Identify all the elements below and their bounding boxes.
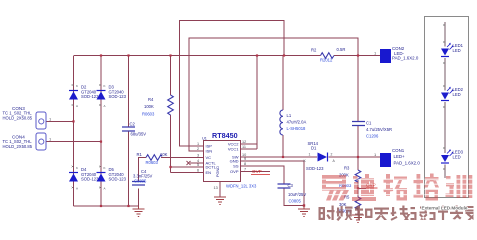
wire: bridge column 2 (x101): [100, 56, 102, 207]
white streaks through watermark: [318, 179, 477, 196]
LED LED1: [441, 43, 464, 57]
capacitor C2: [122, 122, 146, 137]
wire: IC exposed pad pin13 to ground: [219, 182, 221, 197]
diode D2: [69, 84, 99, 108]
capacitor C3: [278, 183, 307, 203]
svg-text:12: 12: [242, 140, 246, 144]
no-connect X on pin 4 ACTL: [187, 161, 191, 165]
wire: R1 left lead down to C4: [139, 158, 147, 182]
svg-text:OVP: OVP: [230, 169, 239, 174]
wire: SS pin8 to C3: [249, 166, 285, 184]
svg-text:A: A: [104, 187, 106, 191]
svg-text:SOD-123: SOD-123: [109, 94, 127, 99]
junction: bottom bus col2: [100, 205, 102, 207]
svg-text:PAD_1.6X2.0: PAD_1.6X2.0: [394, 160, 421, 165]
svg-text:K: K: [76, 84, 78, 88]
拓: [386, 174, 390, 196]
svg-text:LED: LED: [453, 92, 461, 97]
junction: SW row / L1: [282, 156, 284, 158]
svg-text:R0603: R0603: [146, 160, 159, 165]
设: [411, 207, 428, 221]
pin stubs right: [241, 144, 249, 172]
connector CON1 LED+ pad: [374, 148, 420, 167]
junction: SW row / C1 / divider: [357, 156, 359, 158]
junction: rail/col2: [100, 54, 102, 56]
svg-text:2: 2: [331, 153, 333, 157]
wire: CON3 pin to bridge column1: [46, 120, 74, 122]
svg-text:R0603: R0603: [142, 112, 155, 117]
connector CON2 LED- pad: [374, 46, 419, 63]
wire: R4 branch from rail to DCTL/EN: [170, 56, 172, 173]
svg-text:VCC1: VCC1: [228, 147, 239, 152]
net label OVP at divider: [366, 183, 378, 188]
svg-text:HOLD_2X50.85: HOLD_2X50.85: [3, 144, 33, 149]
svg-text:R1: R1: [137, 152, 143, 157]
wire: C4 bottom lead: [138, 189, 140, 207]
训: [446, 176, 451, 180]
wire: bottom return bus to ground: [74, 205, 139, 207]
svg-text:RT8450: RT8450: [212, 131, 238, 140]
wire: OVP tap at divider midpoint: [358, 188, 366, 190]
junction: rail/ISP/L1: [283, 54, 285, 56]
svg-text:SOD-123: SOD-123: [306, 166, 324, 171]
svg-text:R2012: R2012: [320, 58, 333, 63]
junction: rail/R4: [169, 54, 171, 56]
ground: OVP divider ground: [352, 215, 364, 223]
svg-text:U1: U1: [202, 137, 207, 141]
svg-text:LED: LED: [453, 154, 461, 159]
svg-text:A: A: [76, 104, 78, 108]
svg-text:R4: R4: [148, 97, 154, 102]
wire: CON4 pin to bridge column2: [46, 141, 101, 143]
svg-text:PAD_1.6X2.0: PAD_1.6X2.0: [392, 56, 419, 61]
svg-text:External LED Module: External LED Module: [422, 206, 468, 211]
LED LED2: [441, 87, 464, 101]
svg-text:C1206: C1206: [366, 133, 379, 138]
wire: ISP kelvin sense loop (pin1 up and over to R2 left): [180, 21, 285, 147]
svg-text:8: 8: [244, 162, 246, 166]
watermark line1: 易迪拓培训 (drawn strokes, CJK font unavailable): [318, 174, 477, 202]
svg-text:K: K: [76, 166, 78, 170]
svg-text:EN: EN: [206, 170, 212, 175]
svg-text:LED+: LED+: [394, 154, 406, 159]
svg-text:11: 11: [242, 145, 246, 149]
svg-text:0.5R: 0.5R: [337, 47, 346, 52]
svg-text:100K: 100K: [144, 104, 154, 109]
ground: C3 / IC analog ground: [298, 206, 310, 217]
svg-text:6: 6: [197, 169, 199, 173]
capacitor C1 output: [352, 120, 392, 138]
wire: C2 branch: [128, 56, 130, 207]
易: [322, 175, 346, 179]
svg-text:OVP: OVP: [252, 169, 262, 174]
和: [355, 206, 373, 221]
resistor R4: [142, 95, 173, 117]
wire: EN pin6 to R4 branch: [171, 172, 196, 174]
svg-text:C3: C3: [288, 183, 294, 188]
天: [374, 208, 389, 221]
wire: OVP pin7 stub: [249, 171, 271, 173]
svg-text:7: 7: [244, 168, 246, 172]
junction: rail/C2: [127, 54, 129, 56]
wire: L1 branch from rail to SW row: [282, 56, 284, 158]
svg-text:1: 1: [197, 142, 199, 146]
svg-text:5: 5: [197, 163, 199, 167]
junction: rail/VCC feed: [256, 54, 258, 56]
svg-text:1: 1: [309, 153, 311, 157]
svg-text:10K: 10K: [160, 152, 168, 157]
专: [450, 206, 463, 220]
svg-text:SOD-123: SOD-123: [109, 177, 127, 182]
junction: CON3 tap on column1: [72, 120, 74, 122]
svg-text:L1: L1: [287, 113, 292, 118]
diode D1 freewheeling: [304, 141, 336, 171]
wire: ISN kelvin sense loop (pin2 up and over to R2 right): [189, 38, 358, 151]
pin numbers: [197, 140, 246, 190]
频: [337, 206, 353, 221]
svg-text:ISN: ISN: [206, 149, 213, 154]
svg-text:L-SH5018: L-SH5018: [287, 126, 307, 131]
pin names: [206, 142, 240, 177]
svg-text:C2: C2: [130, 122, 136, 127]
svg-text:C1: C1: [366, 120, 372, 125]
junction: bottom bus C2: [127, 205, 129, 207]
junction: rail/ISN/C1: [357, 54, 359, 56]
svg-text:SS: SS: [233, 164, 239, 169]
wire: C1 branch from rail: [357, 56, 359, 158]
wire: GND pin9 to ground: [249, 161, 305, 206]
wire: C3 bottom lead to ground: [284, 188, 304, 206]
svg-text:3: 3: [197, 154, 199, 158]
svg-text:WDFN_12L 3X3: WDFN_12L 3X3: [226, 184, 257, 189]
junction: CON4 tap on column2: [100, 141, 102, 143]
net label OVP at pin7: [251, 169, 270, 175]
svg-text:2: 2: [197, 147, 199, 151]
svg-text:SOD-123: SOD-123: [81, 94, 99, 99]
svg-text:HOLD_2X50.85: HOLD_2X50.85: [3, 115, 33, 120]
svg-text:D1: D1: [311, 145, 317, 150]
svg-text:C0805: C0805: [289, 198, 302, 203]
svg-text:K: K: [104, 166, 106, 170]
计: [430, 206, 449, 221]
svg-text:K: K: [104, 84, 106, 88]
家: [465, 206, 474, 220]
迪: [353, 176, 358, 180]
svg-text:SOD-123: SOD-123: [81, 177, 99, 182]
junction: OVP tap on divider: [357, 187, 359, 189]
wire: OVP divider chain R3/R5: [357, 157, 359, 215]
resistor R2 current sense: [311, 47, 345, 63]
diode D3: [97, 84, 127, 108]
resistor R5 OVP divider lower: [339, 195, 361, 214]
pin stubs left: [190, 146, 204, 173]
wire: VC pin3 to R1: [161, 157, 196, 159]
wire: bridge column 1 (x73.5): [73, 56, 75, 207]
ground: IC exposed pad ground: [214, 197, 226, 205]
线: [391, 206, 411, 221]
external LED module box: [425, 17, 469, 198]
svg-text:4.7u/25V/X5R: 4.7u/25V/X5R: [366, 127, 392, 132]
svg-text:LED: LED: [453, 48, 461, 53]
svg-text:68u/35V: 68u/35V: [131, 132, 147, 137]
svg-text:30K: 30K: [339, 202, 347, 207]
svg-text:CON1: CON1: [392, 148, 405, 153]
watermark line2: 射频和天线设计专家 (drawn strokes): [319, 206, 474, 222]
LED LED3: [441, 149, 464, 163]
svg-text:R3: R3: [344, 165, 350, 170]
wire: SW node row (pin10 to D1 to CON1): [249, 156, 381, 158]
射: [319, 206, 335, 221]
svg-text:VC: VC: [206, 155, 212, 160]
junction: C3/GND9 ground node: [303, 204, 305, 206]
ground: input bus ground: [133, 206, 145, 217]
svg-text:R2: R2: [311, 48, 317, 53]
diode D5: [97, 166, 127, 191]
wire: DCTL pin5 to R4 branch: [171, 166, 196, 168]
svg-text:10uF/25V: 10uF/25V: [288, 192, 306, 197]
svg-text:A: A: [76, 187, 78, 191]
svg-text:PGND: PGND: [216, 166, 220, 177]
resistor R1: [137, 152, 168, 165]
svg-text:A: A: [104, 104, 106, 108]
svg-text:47uH/2.0A: 47uH/2.0A: [287, 120, 307, 125]
svg-text:9: 9: [244, 157, 246, 161]
培: [417, 174, 421, 196]
capacitor C4: [132, 169, 153, 185]
wire: LED string: [444, 22, 446, 178]
connector CON3: [3, 106, 53, 129]
junction: DCTL tap on R4 branch: [169, 166, 171, 168]
wire: VCC1/VCC2 feed from rail: [249, 56, 258, 150]
diode D4: [69, 166, 99, 191]
connector CON4: [3, 133, 53, 150]
svg-text:13: 13: [214, 186, 218, 190]
svg-text:C0805: C0805: [134, 179, 147, 184]
wire: +VIN rectified rail y55.5: [74, 55, 381, 57]
resistor R3 OVP divider upper: [339, 165, 361, 188]
op-amp U1 RT8450 LED driver IC: [187, 131, 258, 190]
inductor L1: [280, 110, 307, 135]
